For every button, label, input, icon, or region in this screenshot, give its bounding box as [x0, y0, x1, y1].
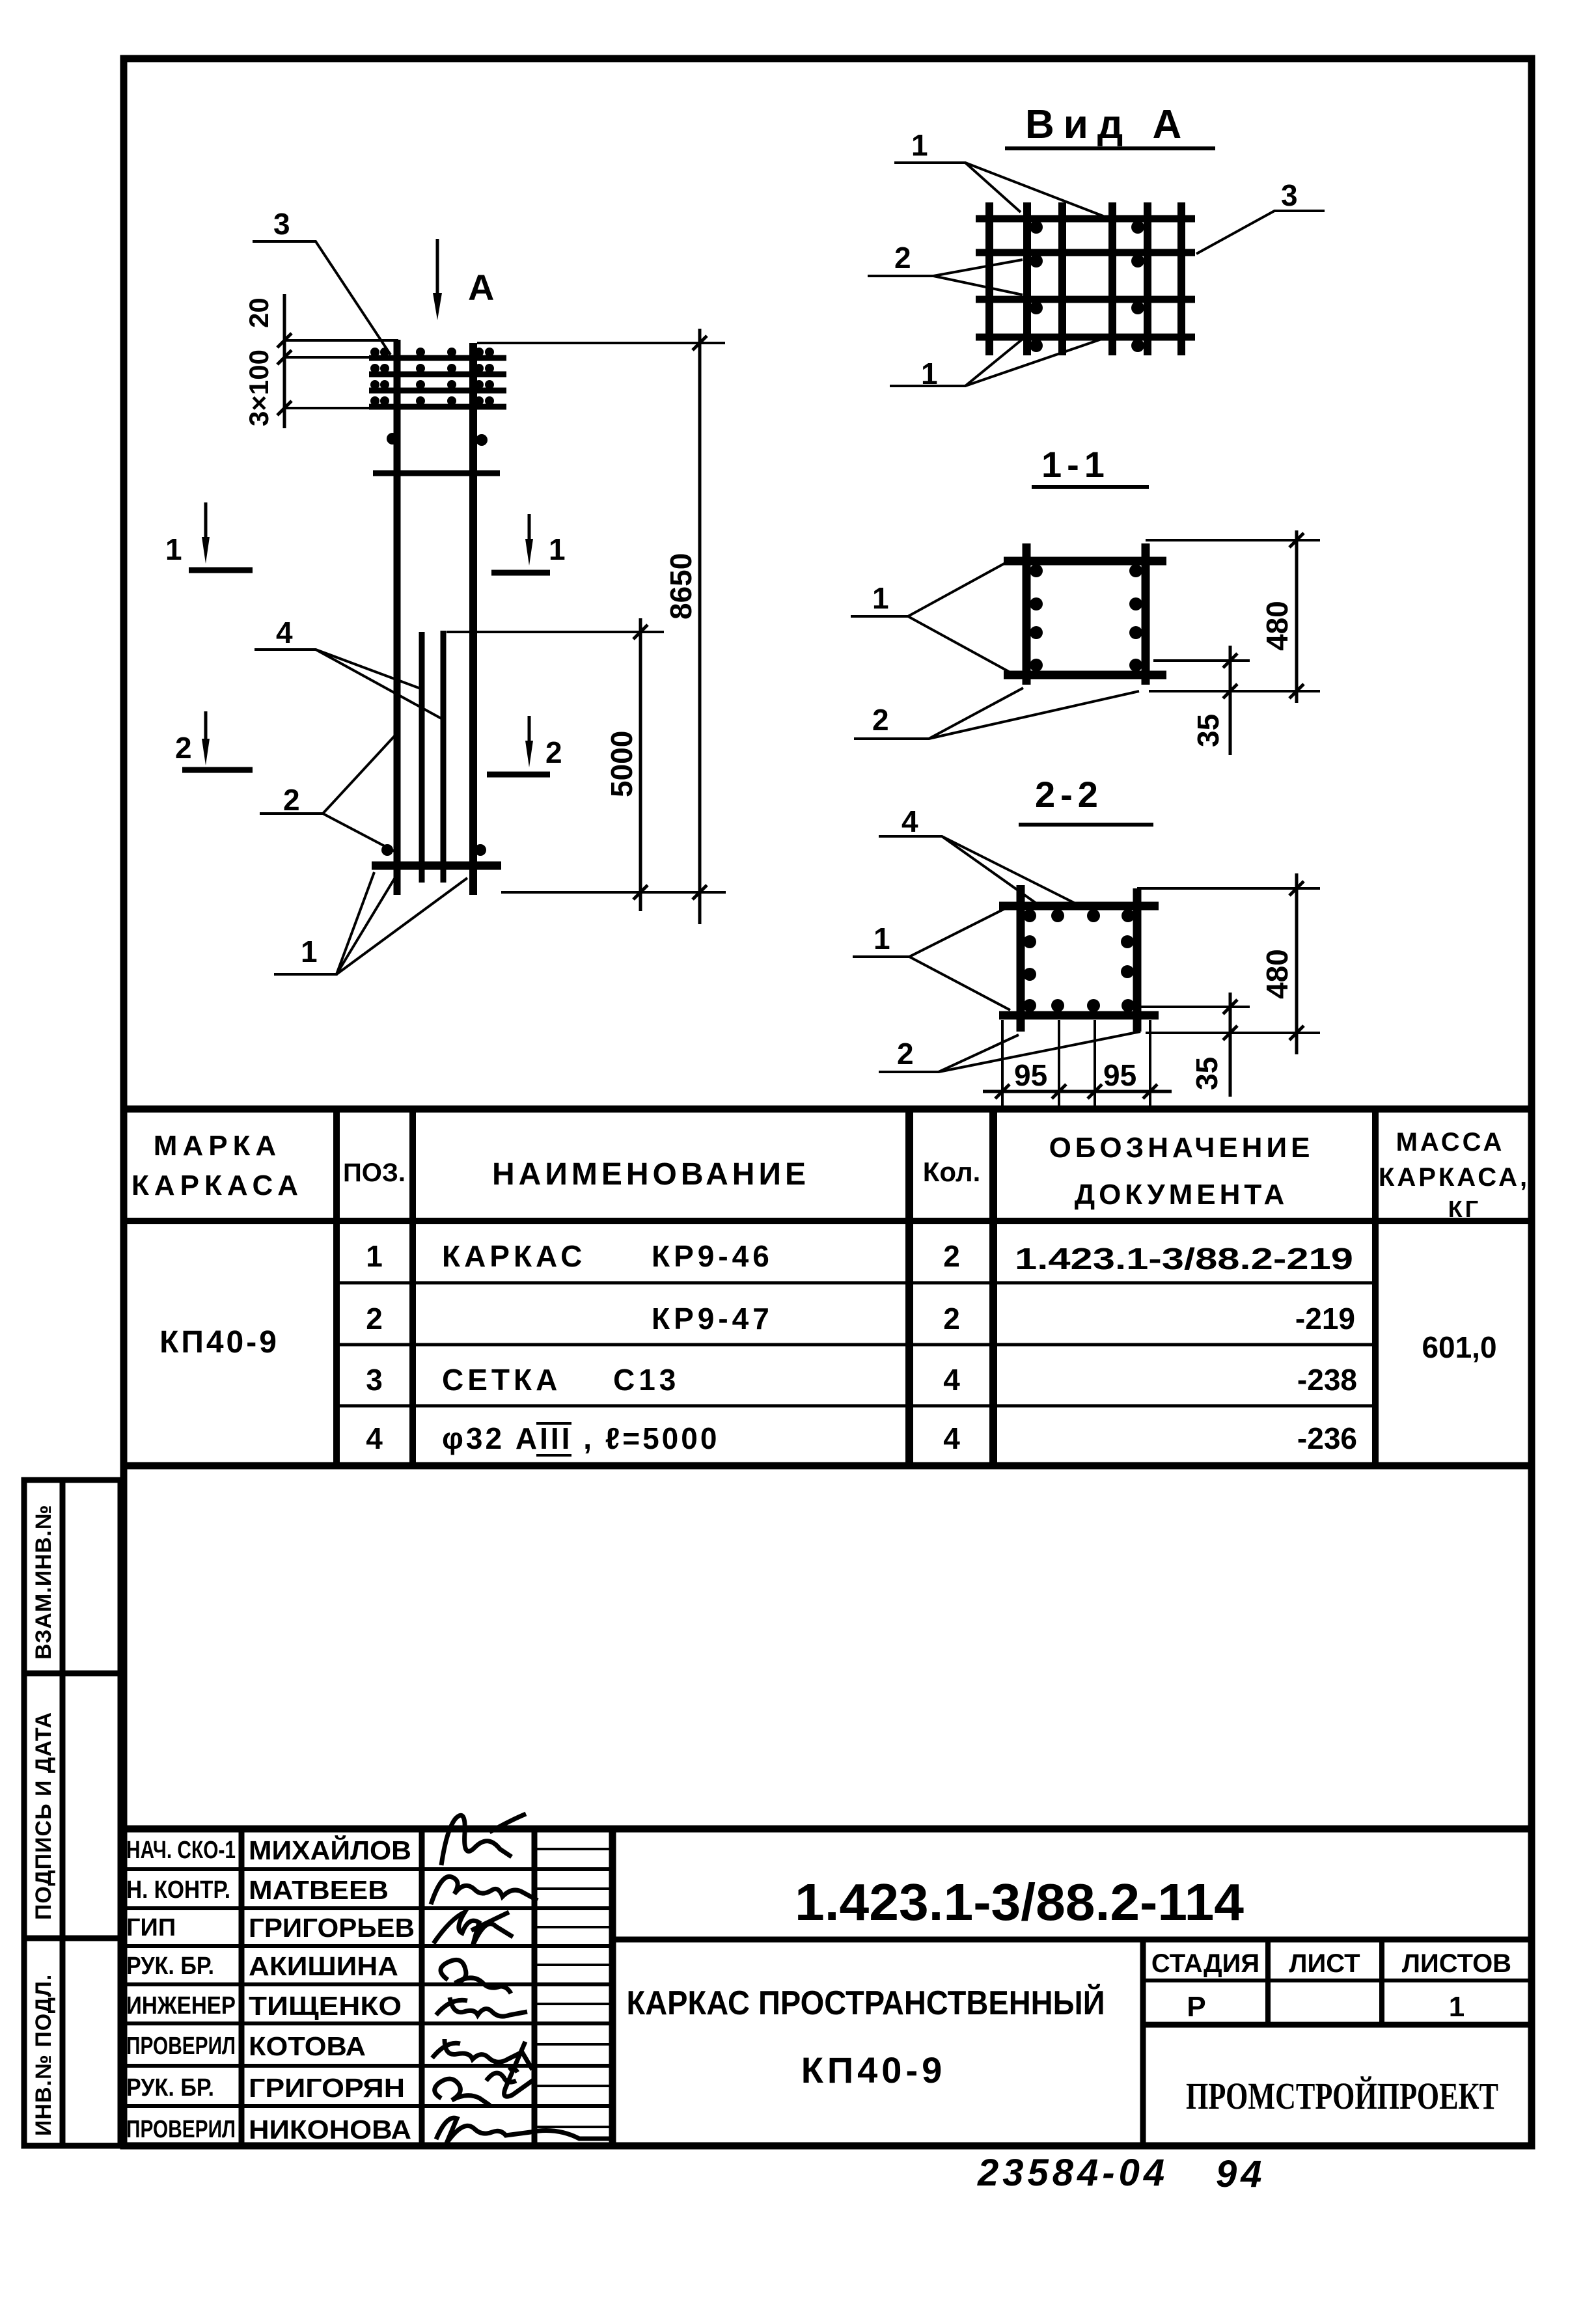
svg-text:АКИШИНА: АКИШИНА — [249, 1951, 398, 1981]
svg-text:4: 4 — [276, 616, 293, 650]
svg-text:-236: -236 — [1297, 1421, 1357, 1455]
svg-text:КГ: КГ — [1448, 1196, 1481, 1222]
svg-text:1.423.1-3/88.2-114: 1.423.1-3/88.2-114 — [795, 1873, 1245, 1931]
svg-text:2: 2 — [366, 1302, 383, 1336]
middle bar right (pos.4) — [441, 631, 447, 883]
svg-text:1: 1 — [1449, 1991, 1465, 2023]
svg-text:480: 480 — [1260, 949, 1294, 999]
svg-text:ЛИСТОВ: ЛИСТОВ — [1402, 1949, 1511, 1978]
svg-text:Р: Р — [1187, 1991, 1205, 2023]
svg-text:КР9-47: КР9-47 — [652, 1302, 773, 1336]
svg-text:1: 1 — [165, 532, 182, 566]
svg-text:НИКОНОВА: НИКОНОВА — [249, 2115, 411, 2144]
label 2 leader mid — [260, 736, 394, 851]
svg-text:2-2: 2-2 — [1035, 774, 1103, 815]
section mark 1 left — [165, 502, 253, 570]
svg-text:ГРИГОРЯН: ГРИГОРЯН — [249, 2073, 405, 2103]
svg-text:3: 3 — [1281, 178, 1298, 212]
svg-text:Н. КОНТР.: Н. КОНТР. — [126, 1876, 230, 1904]
svg-text:4: 4 — [901, 804, 918, 838]
svg-text:МАРКА: МАРКА — [154, 1130, 281, 1162]
svg-text:-238: -238 — [1297, 1363, 1357, 1397]
svg-text:1: 1 — [911, 128, 928, 162]
label 4 leader — [255, 616, 441, 719]
specification table grid — [120, 1109, 1532, 1466]
svg-text:РУК. БР.: РУК. БР. — [126, 1953, 214, 1980]
extension line bottom — [501, 891, 726, 894]
section 2-2 dim 480 — [1137, 873, 1320, 1054]
svg-text:А: А — [468, 267, 494, 308]
svg-text:1: 1 — [872, 581, 889, 615]
svg-text:КП40-9: КП40-9 — [801, 2049, 946, 2090]
dim line 8650 — [693, 329, 707, 924]
svg-text:2: 2 — [545, 735, 562, 769]
mesh vertical bars — [989, 202, 1181, 355]
view arrow A — [433, 239, 494, 320]
svg-text:601,0: 601,0 — [1422, 1330, 1496, 1364]
svg-text:20: 20 — [243, 297, 274, 328]
svg-text:480: 480 — [1260, 601, 1294, 651]
mesh horizontal bars — [976, 219, 1195, 337]
svg-text:1: 1 — [874, 922, 890, 955]
svg-text:1-1: 1-1 — [1041, 444, 1110, 485]
page frame — [124, 59, 1532, 2146]
section 2-2 rebar dots — [1023, 909, 1135, 1012]
svg-text:φ32 АIII , ℓ=5000: φ32 АIII , ℓ=5000 — [442, 1421, 719, 1455]
left stamp strip boxes — [24, 1480, 120, 2146]
section 1-1 label 1 — [851, 561, 1009, 672]
main bar right (pos.1 frame) — [469, 343, 477, 895]
svg-text:2: 2 — [872, 703, 889, 737]
svg-text:-219: -219 — [1295, 1302, 1355, 1336]
svg-text:ОБОЗНАЧЕНИЕ: ОБОЗНАЧЕНИЕ — [1049, 1132, 1314, 1164]
svg-text:ГИП: ГИП — [126, 1914, 176, 1941]
view A label 1 top — [894, 128, 1103, 216]
svg-text:ПРОМСТРОЙПРОЕКТ: ПРОМСТРОЙПРОЕКТ — [1186, 2075, 1498, 2117]
svg-text:СЕТКА: СЕТКА — [442, 1363, 561, 1397]
title block grid — [612, 1939, 1532, 2146]
svg-text:ПРОВЕРИЛ: ПРОВЕРИЛ — [126, 2116, 236, 2143]
svg-text:35: 35 — [1191, 714, 1225, 747]
section 1-1 rebar dots — [1030, 564, 1142, 672]
svg-text:2: 2 — [283, 783, 300, 817]
svg-text:КАРКАС: КАРКАС — [442, 1239, 586, 1273]
svg-text:КАРКАСА,: КАРКАСА, — [1379, 1163, 1530, 1192]
extension line 5000 top — [447, 631, 664, 633]
svg-text:КАРКАС ПРОСТРАНСТВЕННЫЙ: КАРКАС ПРОСТРАНСТВЕННЫЙ — [627, 1984, 1105, 2022]
view A label 1 bottom — [890, 337, 1107, 391]
svg-text:ИНЖЕНЕР: ИНЖЕНЕР — [126, 1992, 236, 2020]
signature rows text — [126, 1835, 415, 2144]
svg-text:КАРКАСА: КАРКАСА — [131, 1170, 303, 1201]
upper tie — [373, 471, 500, 476]
svg-text:1.423.1-3/88.2-219: 1.423.1-3/88.2-219 — [1015, 1242, 1353, 1276]
section 2-2 label 4 — [879, 804, 1074, 905]
svg-text:4: 4 — [943, 1363, 960, 1397]
section 1-1 square — [1004, 543, 1166, 685]
section 2-2 dim 35 — [1140, 993, 1250, 1097]
svg-text:2: 2 — [894, 241, 911, 275]
svg-text:3: 3 — [273, 207, 290, 241]
svg-text:МАССА: МАССА — [1396, 1128, 1505, 1157]
dim line 20/3x100 — [277, 294, 292, 428]
rebar dots below mesh — [387, 433, 398, 445]
svg-text:РУК. БР.: РУК. БР. — [126, 2074, 214, 2102]
svg-text:НАИМЕНОВАНИЕ: НАИМЕНОВАНИЕ — [492, 1157, 810, 1192]
view A label 3 — [1196, 178, 1325, 254]
dim line 5000 — [633, 618, 648, 911]
view A title — [1005, 102, 1215, 148]
svg-text:ТИЩЕНКО: ТИЩЕНКО — [249, 1991, 402, 2021]
dim 20 / 3x100 extension lines — [284, 340, 398, 408]
svg-text:МИХАЙЛОВ: МИХАЙЛОВ — [249, 1835, 411, 1865]
extension line top right — [477, 342, 725, 344]
svg-text:1: 1 — [301, 935, 318, 968]
section 2-2 label 2 — [879, 1032, 1140, 1072]
label 1 leader bottom — [274, 872, 467, 974]
main bar left (pos.1 frame) — [394, 340, 401, 895]
svg-text:8650: 8650 — [664, 553, 698, 620]
svg-text:2: 2 — [897, 1037, 914, 1071]
mesh C13 line 3 — [369, 380, 506, 391]
section 2-2 label 1 — [853, 906, 1010, 1010]
section 2-2 square — [999, 885, 1159, 1032]
svg-text:ДОКУМЕНТА: ДОКУМЕНТА — [1075, 1179, 1289, 1211]
svg-text:ИНВ.№ ПОДЛ.: ИНВ.№ ПОДЛ. — [31, 1974, 56, 2136]
svg-text:2: 2 — [943, 1239, 960, 1273]
section 2-2 dims 95 95 — [983, 1020, 1172, 1108]
section mark 2 right — [487, 716, 562, 774]
svg-text:КОТОВА: КОТОВА — [249, 2031, 366, 2061]
svg-text:ГРИГОРЬЕВ: ГРИГОРЬЕВ — [249, 1913, 415, 1943]
svg-text:2: 2 — [943, 1302, 960, 1336]
svg-text:ПОЗ.: ПОЗ. — [343, 1158, 406, 1187]
mesh C13 line 1 — [369, 348, 506, 358]
svg-text:4: 4 — [943, 1421, 960, 1455]
svg-text:С13: С13 — [613, 1363, 680, 1397]
section mark 1 right — [491, 514, 566, 573]
svg-text:Кол.: Кол. — [923, 1157, 981, 1187]
section mark 2 left — [175, 711, 253, 770]
middle bar left (pos.4) — [419, 632, 425, 883]
svg-text:МАТВЕЕВ: МАТВЕЕВ — [249, 1875, 389, 1905]
section 2-2 title — [1019, 774, 1153, 825]
svg-text:3×100: 3×100 — [243, 349, 274, 426]
svg-text:3: 3 — [366, 1363, 383, 1397]
mesh C13 line 4 — [369, 396, 506, 407]
svg-text:4: 4 — [366, 1421, 383, 1455]
svg-text:ЛИСТ: ЛИСТ — [1289, 1949, 1360, 1978]
signature table grid — [120, 1829, 1532, 2146]
svg-text:КП40-9: КП40-9 — [159, 1325, 279, 1360]
section 1-1 title — [1032, 444, 1149, 487]
svg-text:СТАДИЯ: СТАДИЯ — [1151, 1949, 1259, 1978]
bottom tie — [372, 862, 501, 870]
bottom rebar dots — [381, 844, 393, 856]
svg-text:НАЧ. СКО-1: НАЧ. СКО-1 — [126, 1837, 236, 1864]
mesh C13 line 2 — [369, 364, 506, 374]
svg-text:95: 95 — [1103, 1058, 1136, 1092]
svg-text:5000: 5000 — [605, 731, 639, 797]
section 1-1 label 2 — [854, 688, 1139, 739]
svg-text:КР9-46: КР9-46 — [652, 1239, 773, 1273]
svg-text:ВЗАМ.ИНВ.№: ВЗАМ.ИНВ.№ — [31, 1504, 56, 1660]
svg-text:ПРОВЕРИЛ: ПРОВЕРИЛ — [126, 2033, 236, 2060]
svg-text:23584-04: 23584-04 — [977, 2152, 1168, 2194]
label 3 leader — [253, 207, 391, 355]
svg-text:Вид А: Вид А — [1025, 102, 1190, 147]
view A label 2 — [868, 241, 1023, 295]
svg-text:2: 2 — [175, 731, 192, 765]
section 1-1 dim 35 — [1153, 646, 1250, 755]
svg-text:95: 95 — [1014, 1058, 1047, 1092]
svg-text:1: 1 — [549, 532, 566, 566]
svg-text:94: 94 — [1216, 2153, 1266, 2195]
svg-text:ПОДПИСЬ И ДАТА: ПОДПИСЬ И ДАТА — [31, 1712, 56, 1920]
svg-text:35: 35 — [1190, 1057, 1224, 1090]
mesh hook dots — [1030, 221, 1144, 352]
section 1-1 dim 480 — [1146, 530, 1320, 703]
svg-text:1: 1 — [366, 1239, 383, 1273]
signatures squiggles — [431, 1814, 612, 2143]
